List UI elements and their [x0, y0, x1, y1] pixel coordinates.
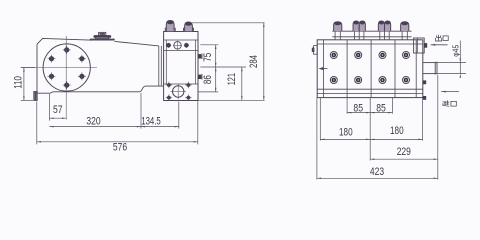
svg-text:75: 75: [202, 53, 214, 62]
svg-text:180: 180: [390, 125, 404, 137]
svg-text:284: 284: [248, 55, 260, 68]
svg-text:320: 320: [86, 115, 100, 127]
svg-text:423: 423: [370, 166, 384, 178]
svg-text:57: 57: [53, 104, 63, 116]
svg-text:86: 86: [202, 75, 214, 84]
svg-text:85: 85: [353, 103, 363, 115]
svg-text:85: 85: [376, 103, 386, 115]
svg-text:229: 229: [397, 146, 411, 158]
svg-text:110: 110: [12, 76, 24, 89]
svg-text:576: 576: [113, 141, 127, 153]
svg-text:121: 121: [226, 73, 238, 85]
svg-text:134.5: 134.5: [141, 115, 161, 127]
svg-text:φ45: φ45: [452, 44, 461, 56]
svg-text:180: 180: [339, 127, 353, 139]
